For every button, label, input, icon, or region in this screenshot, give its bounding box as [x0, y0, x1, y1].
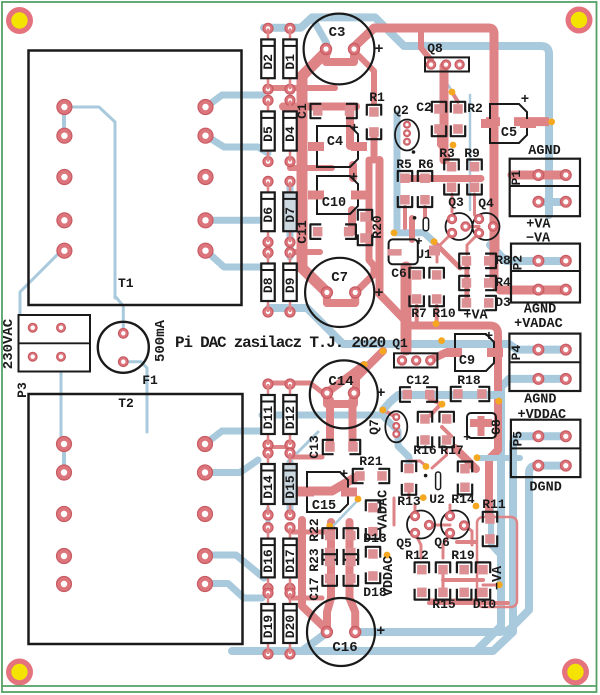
wire [302, 634, 325, 651]
via [361, 361, 368, 368]
wire [290, 165, 332, 171]
wire [441, 74, 452, 91]
svg-text:C17: C17 [307, 577, 322, 600]
wire [266, 509, 271, 532]
svg-text:R20: R20 [370, 215, 385, 239]
svg-text:D2: D2 [261, 54, 276, 70]
wire [115, 296, 123, 333]
wire [348, 210, 356, 232]
wire [290, 596, 322, 601]
resistor R4 [462, 278, 472, 288]
svg-text:C15: C15 [312, 499, 336, 514]
via [438, 337, 445, 344]
resistor R20 [360, 212, 370, 222]
svg-text:R9: R9 [464, 146, 480, 161]
wire [394, 114, 401, 228]
diode D17 [285, 523, 295, 533]
diode D13 [368, 503, 378, 513]
capacitor C11 [313, 227, 323, 237]
capacitor C4 [317, 126, 358, 167]
svg-text:R23: R23 [307, 548, 322, 572]
resistor R3 [447, 162, 457, 172]
svg-text:AGND: AGND [524, 303, 556, 318]
wire [512, 171, 566, 180]
resistor R12 [417, 565, 427, 575]
resistor R18 [453, 389, 463, 399]
svg-text:R3: R3 [439, 146, 455, 161]
resistor R6 [420, 174, 430, 184]
wire [346, 112, 354, 146]
svg-text:VADAC: VADAC [377, 490, 392, 531]
resistor R11 [485, 514, 495, 524]
wire [403, 207, 407, 228]
svg-text:F1: F1 [142, 373, 158, 388]
via [420, 494, 427, 501]
svg-text:R17: R17 [440, 443, 463, 458]
svg-text:+: + [463, 430, 471, 445]
svg-text:Q8: Q8 [427, 41, 443, 56]
transistor Q4 [473, 213, 500, 240]
wire [486, 117, 500, 126]
svg-text:D3: D3 [495, 295, 511, 310]
via [391, 230, 398, 237]
wire [476, 379, 567, 651]
resistor R22 [325, 531, 335, 541]
transistor Q2 [395, 120, 419, 151]
diode D15 [285, 448, 295, 458]
wire [443, 533, 450, 558]
wire [262, 415, 409, 465]
wire [415, 306, 419, 321]
wire [290, 530, 325, 535]
wire [327, 292, 355, 303]
svg-text:R8: R8 [495, 253, 511, 268]
wire [327, 393, 354, 404]
svg-text:P5: P5 [510, 431, 525, 447]
svg-text:VDDAC: VDDAC [382, 556, 397, 597]
wire [354, 51, 374, 103]
svg-text:D12: D12 [283, 406, 298, 430]
svg-text:+: + [521, 92, 529, 108]
resistor R17 [442, 414, 452, 424]
wire [466, 225, 480, 228]
mounting hole top-right [566, 7, 593, 34]
svg-text:R2: R2 [467, 101, 483, 116]
wire [469, 95, 472, 210]
wire [538, 198, 566, 206]
svg-text:D8: D8 [261, 277, 276, 293]
via [449, 89, 456, 96]
wire [123, 362, 147, 432]
svg-text:500mA: 500mA [153, 319, 169, 362]
wire [287, 462, 294, 510]
wire [514, 117, 549, 126]
capacitor C16 [307, 598, 375, 666]
capacitor C7 [305, 258, 374, 327]
op-amp U1 [389, 239, 418, 264]
svg-text:P3: P3 [15, 382, 30, 398]
fuse F1 [98, 322, 149, 373]
via [548, 118, 555, 125]
svg-text:R11: R11 [482, 497, 506, 512]
svg-text:P1: P1 [509, 170, 524, 186]
svg-text:Q1: Q1 [392, 336, 408, 351]
wire [269, 308, 567, 350]
resistor R15 [459, 565, 469, 575]
wire [297, 432, 318, 453]
wire [312, 17, 327, 49]
svg-text:R1: R1 [369, 90, 385, 105]
svg-text:C1: C1 [295, 103, 310, 119]
wire [473, 194, 476, 215]
capacitor C2 [434, 104, 444, 114]
via [431, 238, 438, 245]
wire [449, 505, 452, 516]
transformer T2 [29, 394, 243, 644]
wire [414, 505, 417, 516]
capacitor C9 [455, 334, 494, 371]
svg-text:R7: R7 [411, 306, 427, 321]
wire [430, 399, 442, 404]
wire [349, 400, 357, 447]
capacitor C15 [307, 472, 348, 512]
transistor Q1 [394, 353, 437, 367]
svg-text:C9: C9 [459, 354, 475, 369]
svg-text:R22: R22 [307, 518, 322, 542]
wire [430, 599, 477, 602]
connector P3 [19, 315, 91, 372]
wire [464, 260, 469, 303]
wire [205, 584, 262, 599]
transistor Q3 [446, 213, 473, 240]
connector P2 [511, 244, 580, 303]
svg-text:+: + [350, 121, 358, 137]
capacitor C5 [490, 104, 527, 143]
via [380, 348, 387, 355]
svg-text:D17: D17 [283, 549, 298, 572]
wire [464, 526, 472, 546]
wire [232, 436, 567, 651]
svg-text:D10: D10 [473, 597, 497, 612]
wire [290, 249, 320, 255]
svg-text:D13: D13 [363, 531, 387, 546]
wire [429, 524, 450, 527]
via [384, 552, 391, 559]
wire [205, 555, 264, 578]
svg-text:D7: D7 [283, 207, 298, 223]
wire [491, 505, 501, 556]
resistor R5 [400, 174, 410, 184]
wire [264, 17, 549, 215]
svg-text:Q3: Q3 [448, 195, 464, 210]
wire [393, 498, 396, 525]
svg-text:D15: D15 [283, 475, 298, 499]
mounting hole bottom-right [562, 659, 589, 686]
wire [451, 194, 454, 212]
svg-text:C10: C10 [322, 196, 346, 211]
wire [439, 129, 448, 160]
wire [206, 251, 262, 267]
svg-text:D5: D5 [261, 126, 276, 142]
capacitor C13 [325, 442, 335, 452]
svg-text:+VA: +VA [463, 309, 488, 324]
wire [62, 444, 66, 473]
mounting hole top-left [6, 7, 33, 34]
wire [61, 357, 64, 444]
svg-text:+: + [374, 41, 383, 58]
wire [394, 233, 434, 242]
svg-text:Q6: Q6 [434, 535, 450, 550]
resistor R13 [404, 464, 414, 474]
via [355, 496, 362, 503]
wire [268, 445, 290, 449]
wire [452, 92, 458, 102]
svg-text:U2: U2 [429, 492, 445, 507]
via [450, 142, 457, 149]
resistor R7 [432, 270, 442, 280]
svg-text:−VA: −VA [491, 565, 506, 590]
wire [64, 107, 115, 298]
svg-text:C13: C13 [307, 435, 322, 459]
wire [415, 533, 421, 558]
capacitor C17 [346, 557, 356, 567]
svg-text:P4: P4 [509, 345, 524, 361]
svg-text:AGND: AGND [524, 393, 556, 408]
wire [350, 522, 356, 632]
wire [205, 431, 262, 444]
svg-text:D20: D20 [283, 615, 298, 639]
wire [266, 238, 271, 257]
resistor R8 [462, 256, 472, 266]
capacitor C3 [304, 14, 375, 85]
diode D7 [285, 176, 295, 186]
crystal Y1 [423, 218, 428, 231]
diode D16 [263, 523, 273, 533]
wire [401, 267, 412, 350]
capacitor C6 [412, 270, 422, 280]
diode D5 [263, 95, 273, 105]
wire [206, 95, 262, 107]
svg-text:+: + [415, 235, 422, 249]
wire [430, 353, 446, 361]
svg-text:C2: C2 [416, 100, 432, 115]
wire [290, 455, 322, 460]
resistor R23 [325, 557, 335, 567]
svg-text:D4: D4 [283, 126, 298, 142]
wire [283, 103, 356, 111]
svg-text:T1: T1 [118, 276, 134, 291]
resistor R14 [460, 464, 470, 474]
diode D12 [285, 379, 295, 389]
wire [437, 233, 452, 262]
resistor R9 [470, 162, 480, 172]
svg-text:R5: R5 [396, 157, 412, 172]
svg-text:+: + [485, 329, 493, 345]
svg-text:+VADAC: +VADAC [514, 317, 563, 332]
svg-text:−VA: −VA [526, 232, 551, 247]
svg-text:D19: D19 [261, 615, 276, 639]
wire [442, 427, 451, 436]
wire [490, 245, 567, 261]
wire [440, 66, 449, 160]
capacitor C8 [467, 413, 496, 438]
wire [326, 400, 334, 447]
diode D14 [263, 448, 273, 458]
wire [354, 28, 566, 290]
wire [33, 326, 61, 329]
svg-text:R6: R6 [418, 157, 434, 172]
wire [206, 217, 268, 224]
svg-text:R10: R10 [432, 306, 456, 321]
diode D6 [263, 176, 273, 186]
resistor R21 [355, 471, 365, 481]
wire [268, 85, 335, 91]
svg-text:+: + [376, 385, 385, 402]
svg-text:DGND: DGND [529, 481, 561, 496]
svg-text:Q5: Q5 [396, 536, 412, 551]
svg-text:C8: C8 [489, 419, 504, 435]
wire [206, 136, 268, 153]
wire [429, 601, 508, 605]
svg-text:C11: C11 [295, 220, 310, 244]
via [433, 320, 440, 327]
diode D19 [263, 588, 273, 598]
transistor Q7 [385, 411, 407, 442]
diode D2 [263, 23, 273, 33]
svg-text:D1: D1 [283, 54, 298, 70]
wire [329, 365, 364, 391]
crystal Y2 [436, 472, 441, 490]
wire [434, 242, 460, 268]
wire [455, 448, 476, 469]
wire [288, 477, 356, 491]
svg-text:R19: R19 [451, 548, 475, 563]
via [496, 581, 503, 588]
wire [268, 383, 327, 396]
svg-text:AGND: AGND [528, 144, 560, 159]
transistor Q6 [441, 511, 469, 539]
wire [421, 28, 431, 60]
svg-text:D6: D6 [261, 207, 276, 223]
svg-text:Q2: Q2 [393, 103, 409, 118]
via [326, 523, 333, 530]
resistor R2 [453, 104, 463, 114]
svg-text:C4: C4 [327, 135, 343, 150]
wire [349, 165, 357, 178]
svg-text:Pi DAC zasilacz T.J. 2020: Pi DAC zasilacz T.J. 2020 [175, 334, 386, 352]
wire [477, 455, 520, 461]
connector P1 [510, 159, 580, 217]
wire [380, 160, 499, 334]
svg-text:C7: C7 [331, 270, 348, 286]
svg-text:P2: P2 [511, 255, 526, 271]
svg-text:D14: D14 [261, 475, 276, 499]
wire [408, 488, 411, 498]
wire [432, 448, 447, 468]
wire [423, 207, 427, 224]
svg-text:+VA: +VA [526, 218, 551, 233]
wire [409, 461, 426, 466]
wire [409, 218, 415, 240]
wire [405, 175, 481, 182]
wire [356, 466, 567, 632]
svg-text:+VDDAC: +VDDAC [517, 408, 566, 423]
svg-text:Q4: Q4 [478, 196, 494, 211]
wire [483, 584, 499, 587]
via [473, 503, 480, 510]
svg-text:T2: T2 [118, 396, 134, 411]
svg-text:R21: R21 [359, 454, 383, 469]
diode D3 [462, 298, 472, 308]
wire [430, 404, 442, 416]
svg-text:C6: C6 [391, 266, 407, 281]
capacitor C1 [313, 106, 323, 116]
svg-text:+: + [374, 285, 383, 302]
wire [302, 52, 327, 292]
svg-text:D9: D9 [283, 277, 298, 293]
svg-text:R18: R18 [457, 373, 481, 388]
wire [205, 460, 258, 473]
wire [443, 578, 483, 582]
svg-text:R4: R4 [495, 275, 511, 290]
mounting hole bottom-left [6, 659, 33, 686]
svg-text:+: + [350, 170, 358, 186]
svg-text:Q7: Q7 [367, 419, 382, 435]
svg-text:R14: R14 [451, 492, 475, 507]
capacitor C14 [310, 360, 378, 428]
wire [383, 395, 501, 410]
resistor R16 [420, 414, 430, 424]
wire [493, 227, 498, 251]
via [380, 407, 387, 414]
resistor R1 [369, 107, 379, 117]
wire [435, 306, 439, 321]
wire [383, 410, 396, 417]
wire [287, 180, 294, 257]
svg-text:C16: C16 [332, 640, 357, 656]
wire [442, 572, 445, 590]
diode D9 [285, 248, 295, 258]
wire [327, 522, 331, 632]
svg-text:D11: D11 [261, 406, 276, 430]
connector P4 [509, 334, 580, 391]
svg-text:C5: C5 [501, 126, 517, 141]
svg-text:C12: C12 [406, 373, 430, 388]
diode D20 [285, 588, 295, 598]
capacitor C10 [317, 176, 358, 214]
capacitor C12 [403, 390, 413, 400]
wire [371, 134, 378, 160]
svg-text:R15: R15 [432, 597, 456, 612]
via [423, 463, 430, 470]
wire [357, 160, 374, 291]
wire [326, 49, 354, 62]
transformer T1 [29, 51, 242, 306]
svg-text:+: + [340, 467, 348, 483]
wire [489, 401, 498, 515]
diode D11 [263, 379, 273, 389]
wire [332, 500, 358, 527]
svg-text:D16: D16 [261, 549, 276, 573]
diode D4 [285, 95, 295, 105]
via [474, 454, 481, 461]
connector P5 [511, 420, 581, 477]
via [495, 398, 502, 405]
wire [470, 419, 492, 427]
transistor Q8 [425, 57, 469, 71]
transistor Q5 [407, 511, 435, 539]
svg-text:230VAC: 230VAC [1, 318, 17, 369]
